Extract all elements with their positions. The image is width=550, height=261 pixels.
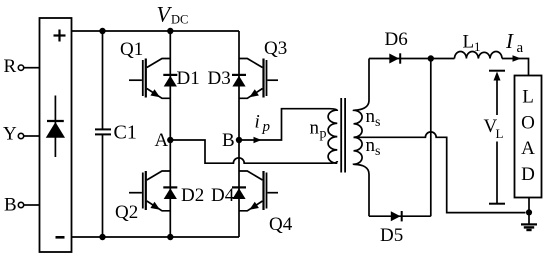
svg-text:D5: D5 bbox=[380, 225, 403, 246]
bottom bus wire bbox=[72, 236, 240, 238]
svg-text:L: L bbox=[522, 87, 534, 108]
rectifier plus sign bbox=[54, 30, 66, 42]
wire L1 to load bbox=[502, 59, 529, 76]
node: junction dot load return bbox=[526, 209, 532, 215]
transistor Q1 bbox=[120, 39, 170, 98]
svg-text:a: a bbox=[517, 40, 524, 56]
svg-text:D4: D4 bbox=[211, 185, 235, 206]
rectifier box bbox=[40, 18, 72, 252]
diode D5 bbox=[380, 211, 403, 246]
svg-text:L: L bbox=[463, 32, 475, 53]
node A bbox=[155, 130, 174, 151]
svg-text:Q1: Q1 bbox=[120, 39, 143, 60]
wire Y to rectifier bbox=[24, 135, 40, 137]
wire R to rectifier bbox=[24, 67, 40, 69]
svg-text:i: i bbox=[255, 112, 260, 133]
svg-text:D1: D1 bbox=[177, 68, 200, 89]
current arrow Ia bbox=[505, 29, 524, 62]
svg-text:D3: D3 bbox=[208, 68, 231, 89]
wire B to rectifier bbox=[24, 204, 40, 206]
transistor Q3 bbox=[239, 38, 287, 98]
node: junction dot bottom of left leg bbox=[167, 234, 173, 240]
svg-text:R: R bbox=[4, 56, 17, 77]
terminal R bbox=[4, 56, 24, 77]
rectifier diode bbox=[46, 96, 65, 158]
svg-text:s: s bbox=[375, 115, 380, 130]
wire secondary top to D6 and junction bbox=[369, 58, 455, 60]
top DC bus wire bbox=[72, 30, 240, 32]
svg-text:C1: C1 bbox=[114, 122, 137, 144]
transistor Q4 bbox=[239, 171, 293, 235]
wire left bridge leg bbox=[169, 31, 171, 237]
transistor Q2 bbox=[115, 171, 170, 223]
terminal Y bbox=[3, 124, 24, 145]
svg-text:D: D bbox=[521, 164, 535, 185]
svg-text:A: A bbox=[155, 130, 169, 151]
rectifier minus sign bbox=[56, 236, 65, 239]
label VDC bbox=[157, 2, 189, 27]
svg-text:A: A bbox=[521, 138, 535, 159]
svg-text:s: s bbox=[375, 144, 380, 159]
voltage indicator VL bbox=[484, 71, 506, 204]
diode D6 bbox=[385, 29, 408, 64]
transformer secondary winding ns (bottom) bbox=[354, 135, 381, 216]
svg-text:O: O bbox=[521, 112, 535, 133]
LOAD box bbox=[515, 76, 542, 198]
diode D1 bbox=[163, 68, 199, 89]
svg-text:Q4: Q4 bbox=[269, 214, 293, 235]
wire node A to primary bottom (with hop over B leg) bbox=[170, 140, 337, 163]
wire secondary bottom to D5 bbox=[369, 215, 431, 217]
svg-text:p: p bbox=[320, 127, 327, 142]
svg-text:p: p bbox=[262, 119, 271, 135]
svg-text:Q2: Q2 bbox=[115, 202, 138, 223]
svg-text:DC: DC bbox=[171, 13, 188, 27]
wire D5 output leg (vertical) bbox=[430, 59, 432, 217]
transformer primary winding np bbox=[310, 110, 338, 163]
svg-text:I: I bbox=[505, 29, 514, 53]
node B bbox=[222, 130, 242, 151]
svg-text:B: B bbox=[222, 130, 235, 151]
terminal B bbox=[4, 195, 24, 216]
wire right bridge leg bbox=[238, 31, 240, 237]
svg-text:n: n bbox=[310, 118, 320, 139]
diode D2 bbox=[163, 185, 204, 206]
svg-text:Y: Y bbox=[3, 124, 17, 145]
current arrow ip bbox=[254, 112, 271, 144]
svg-text:B: B bbox=[4, 195, 17, 216]
node: junction dot bottom of C1 bbox=[99, 234, 105, 240]
svg-text:D6: D6 bbox=[385, 29, 408, 50]
node: junction dot top of C1 bbox=[99, 28, 105, 34]
diode D4 bbox=[211, 185, 246, 206]
transformer core bbox=[341, 98, 345, 173]
svg-text:1: 1 bbox=[474, 39, 481, 54]
inductor L1 bbox=[455, 32, 503, 59]
svg-text:n: n bbox=[366, 106, 376, 127]
ground bbox=[521, 224, 537, 230]
svg-text:L: L bbox=[496, 126, 504, 141]
wire node B to primary top bbox=[239, 109, 337, 140]
diode D3 bbox=[208, 68, 247, 89]
node: junction dot D6/D5 outputs bbox=[428, 55, 434, 61]
svg-text:Q3: Q3 bbox=[264, 38, 287, 59]
transformer secondary winding ns (top) bbox=[354, 59, 381, 138]
svg-text:D2: D2 bbox=[181, 185, 204, 206]
wire center tap to load return (hop over rectified bus) bbox=[354, 132, 526, 213]
capacitor C1 bbox=[95, 31, 137, 237]
wire load bottom bbox=[528, 198, 530, 225]
node: junction dot top of left leg bbox=[167, 28, 173, 34]
